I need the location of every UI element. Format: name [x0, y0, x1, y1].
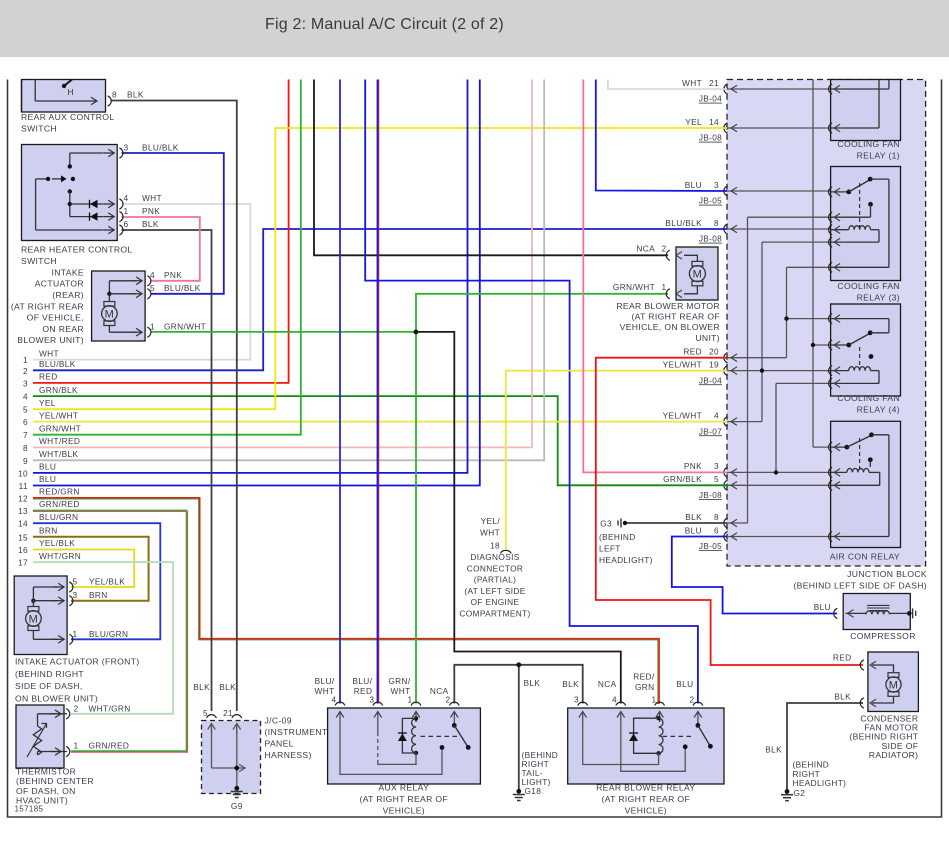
svg-text:GRN/RED: GRN/RED — [89, 741, 130, 751]
svg-text:REAR AUX CONTROL: REAR AUX CONTROL — [21, 112, 114, 122]
svg-text:157185: 157185 — [15, 805, 44, 814]
svg-text:YEL/BLK: YEL/BLK — [89, 577, 125, 587]
svg-text:M: M — [889, 680, 899, 692]
actuator M-intake-front intake actuator (front) — [14, 576, 67, 655]
svg-text:17: 17 — [18, 558, 28, 568]
svg-text:18: 18 — [490, 541, 500, 551]
svg-text:RELAY (1): RELAY (1) — [857, 151, 900, 161]
svg-text:INTAKE: INTAKE — [51, 267, 84, 277]
svg-text:1: 1 — [662, 282, 667, 292]
svg-text:YEL/: YEL/ — [481, 516, 501, 526]
svg-text:RED: RED — [39, 372, 58, 382]
svg-text:BLU: BLU — [39, 462, 56, 472]
svg-text:RED: RED — [833, 653, 852, 663]
svg-text:RELAY (4): RELAY (4) — [857, 405, 900, 415]
svg-text:HEADLIGHT): HEADLIGHT) — [599, 555, 653, 565]
svg-text:THERMISTOR: THERMISTOR — [16, 767, 76, 777]
wire YEL/WHT diagnosis connector drop — [506, 371, 727, 549]
wire 17 WHT/GRN row — [33, 562, 173, 714]
svg-text:HEADLIGHT): HEADLIGHT) — [793, 778, 847, 788]
motor M-rear-blower rear blower motor — [676, 247, 718, 300]
svg-text:15: 15 — [18, 532, 28, 542]
svg-text:BLU/GRN: BLU/GRN — [89, 629, 128, 639]
svg-text:BLK: BLK — [685, 512, 702, 522]
svg-text:JB-08: JB-08 — [699, 134, 722, 143]
svg-text:AUX RELAY: AUX RELAY — [378, 783, 429, 793]
svg-text:GRN: GRN — [635, 682, 655, 692]
wire 3 RED row — [33, 80, 289, 383]
svg-text:(AT RIGHT REAR OF: (AT RIGHT REAR OF — [631, 312, 720, 322]
wire 12 RED/GRN row — [33, 498, 659, 704]
svg-text:PANEL: PANEL — [265, 739, 294, 749]
svg-text:OF ENGINE: OF ENGINE — [471, 597, 520, 607]
svg-text:8: 8 — [714, 218, 719, 228]
svg-text:BLK: BLK — [562, 679, 579, 689]
svg-text:RED/: RED/ — [633, 672, 655, 682]
svg-text:JB-05: JB-05 — [699, 197, 722, 206]
svg-text:BLOWER UNIT): BLOWER UNIT) — [17, 335, 84, 345]
svg-text:1: 1 — [408, 695, 413, 705]
svg-text:PNK: PNK — [164, 270, 182, 280]
svg-text:1: 1 — [23, 355, 28, 365]
svg-text:GRN/RED: GRN/RED — [39, 499, 80, 509]
wire PNK heater pin1 to intake rear pin4 — [122, 217, 200, 281]
svg-text:NCA: NCA — [636, 244, 655, 254]
jb pin 21 WHT — [724, 84, 728, 94]
svg-text:SWITCH: SWITCH — [21, 124, 57, 134]
svg-text:3: 3 — [574, 695, 579, 705]
wire GRN/WHT intake rear pin1 to junction — [151, 331, 417, 333]
svg-text:5: 5 — [73, 577, 78, 587]
svg-text:GRN/WHT: GRN/WHT — [613, 282, 655, 292]
actuator M-intake-rear intake actuator (rear) — [92, 271, 146, 341]
svg-text:14: 14 — [709, 117, 719, 127]
svg-text:WHT: WHT — [480, 528, 500, 538]
svg-text:WHT: WHT — [682, 78, 702, 88]
wire WHT from top to JB pin 21 — [608, 80, 727, 90]
wire 4 GRN/BLK row — [33, 396, 727, 485]
svg-text:YEL/WHT: YEL/WHT — [663, 410, 702, 420]
svg-text:REAR BLOWER RELAY: REAR BLOWER RELAY — [596, 783, 695, 793]
svg-text:BLK: BLK — [765, 744, 782, 754]
svg-text:M: M — [29, 614, 39, 626]
svg-text:BLK: BLK — [219, 682, 236, 692]
svg-text:(REAR): (REAR) — [52, 290, 84, 300]
svg-text:SIDE OF DASH,: SIDE OF DASH, — [15, 681, 83, 691]
relay: cooling fan relay (1) — [831, 80, 901, 141]
svg-text:GRN/BLK: GRN/BLK — [39, 385, 78, 395]
svg-text:BLU: BLU — [685, 180, 702, 190]
wire 7 GRN/WHT row — [33, 80, 301, 435]
svg-text:1: 1 — [74, 741, 79, 751]
svg-text:(PARTIAL): (PARTIAL) — [474, 575, 517, 585]
svg-text:BLK: BLK — [524, 678, 541, 688]
svg-text:BLU: BLU — [685, 525, 702, 535]
svg-text:3: 3 — [714, 180, 719, 190]
svg-text:2: 2 — [23, 366, 28, 376]
svg-text:BLK: BLK — [193, 682, 210, 692]
svg-text:NCA: NCA — [598, 679, 617, 689]
svg-text:5: 5 — [203, 708, 208, 718]
wire BLU/RED from top to aux relay pin 3 — [377, 80, 379, 704]
svg-text:4: 4 — [612, 695, 617, 705]
svg-text:BLU/BLK: BLU/BLK — [142, 143, 179, 153]
svg-text:BLU: BLU — [814, 602, 831, 612]
svg-text:BLK: BLK — [127, 90, 144, 100]
thermistor RT1 — [16, 705, 64, 768]
relay: air con relay U-aircon — [831, 421, 901, 547]
svg-text:(INSTRUMENT: (INSTRUMENT — [265, 727, 328, 737]
svg-text:RADIATOR): RADIATOR) — [869, 750, 919, 760]
svg-text:WHT: WHT — [39, 348, 59, 358]
jb pin 6 BLU — [724, 531, 728, 541]
svg-text:RED: RED — [683, 347, 702, 357]
svg-text:YEL: YEL — [39, 398, 56, 408]
wire 6 YEL/WHT row — [33, 421, 727, 423]
jb pin 8 BLK — [724, 518, 728, 528]
svg-text:BRN: BRN — [39, 526, 58, 536]
svg-text:M: M — [693, 269, 703, 281]
svg-text:4: 4 — [23, 392, 28, 402]
svg-text:DIAGNOSIS: DIAGNOSIS — [470, 552, 519, 562]
svg-text:10: 10 — [18, 468, 28, 478]
wire BLK rear blower relay net with G18 ground — [454, 665, 582, 704]
svg-text:7: 7 — [23, 430, 28, 440]
svg-text:Fig 2: Manual A/C Circuit (2 o: Fig 2: Manual A/C Circuit (2 of 2) — [265, 16, 504, 33]
svg-text:3: 3 — [73, 590, 78, 600]
svg-text:5: 5 — [150, 283, 155, 293]
svg-text:VEHICLE): VEHICLE) — [383, 806, 425, 816]
svg-text:JUNCTION BLOCK: JUNCTION BLOCK — [847, 569, 927, 579]
svg-text:G18: G18 — [525, 786, 542, 796]
svg-text:WHT/GRN: WHT/GRN — [89, 704, 131, 714]
motor M-condenser condenser fan motor — [868, 652, 919, 712]
svg-text:(AT RIGHT REAR: (AT RIGHT REAR — [11, 301, 84, 311]
svg-text:J/C-09: J/C-09 — [265, 716, 292, 726]
svg-text:UNIT): UNIT) — [695, 333, 720, 343]
svg-text:11: 11 — [19, 481, 28, 491]
svg-text:COMPARTMENT): COMPARTMENT) — [459, 609, 530, 619]
connector diagnosis (partial) — [501, 550, 512, 553]
svg-text:REAR BLOWER MOTOR: REAR BLOWER MOTOR — [616, 301, 720, 311]
svg-text:JB-07: JB-07 — [699, 427, 722, 436]
wire GRN/WHT junction down to aux relay pin1 and motor branch — [416, 294, 668, 704]
svg-text:G9: G9 — [231, 801, 243, 811]
svg-text:4: 4 — [124, 193, 129, 203]
svg-text:LIGHT): LIGHT) — [522, 777, 551, 787]
svg-text:ON BLOWER UNIT): ON BLOWER UNIT) — [15, 693, 98, 703]
svg-text:RELAY (3): RELAY (3) — [857, 293, 900, 303]
svg-text:YEL: YEL — [685, 117, 702, 127]
svg-text:BLK: BLK — [142, 219, 159, 229]
svg-text:1: 1 — [150, 322, 155, 332]
svg-text:3: 3 — [124, 143, 129, 153]
relay: cooling fan relay (4) — [831, 304, 901, 396]
svg-text:GRN/BLK: GRN/BLK — [663, 474, 702, 484]
wire BLK from rear heater switch pin 6 to J/C-09 pin 5 — [122, 230, 212, 711]
wire 9 WHT/BLK row — [33, 80, 544, 461]
jb pin 3 BLU — [724, 186, 728, 196]
relay K-rear-blower rear blower relay — [568, 708, 724, 784]
svg-text:12: 12 — [18, 493, 28, 503]
svg-text:INTAKE ACTUATOR (FRONT): INTAKE ACTUATOR (FRONT) — [15, 657, 140, 667]
junction block (behind left side of dash) — [727, 80, 926, 567]
wire BLU JB pin6 to compressor — [672, 537, 837, 614]
svg-text:2: 2 — [662, 244, 667, 254]
svg-text:OF VEHICLE,: OF VEHICLE, — [27, 313, 84, 323]
jb pin 20 RED — [724, 353, 728, 363]
connector J/C-09 instrument panel harness — [202, 721, 261, 794]
wire BLK from rear aux switch pin 8 to J/C-09 pin 21 — [111, 101, 237, 712]
svg-text:(BEHIND CENTER: (BEHIND CENTER — [16, 776, 94, 786]
switch SW-heater rear heater control switch — [22, 145, 118, 241]
svg-text:YEL/WHT: YEL/WHT — [663, 359, 702, 369]
svg-text:H: H — [68, 87, 74, 97]
svg-text:BRN: BRN — [89, 590, 108, 600]
wire 15 BRN row — [33, 537, 149, 601]
svg-text:(AT RIGHT REAR OF: (AT RIGHT REAR OF — [360, 794, 449, 804]
switch SW-aux rear aux control switch — [22, 80, 106, 113]
wire NCA black junction to rear blower relay pin 4 — [416, 332, 621, 704]
jb pin 8 BLU/BLK — [724, 224, 728, 234]
jb pin 5 GRN/BLK — [724, 480, 728, 490]
svg-text:3: 3 — [369, 695, 374, 705]
svg-text:SWITCH: SWITCH — [21, 256, 57, 266]
wire 10 BLU row — [33, 80, 468, 473]
wire 8 WHT/RED row — [33, 80, 532, 448]
svg-text:YEL/BLK: YEL/BLK — [39, 538, 75, 548]
svg-text:BLK: BLK — [834, 692, 851, 702]
svg-text:(BEHIND RIGHT: (BEHIND RIGHT — [15, 669, 84, 679]
relay K-aux aux relay — [328, 708, 481, 784]
wire BLU/BLK heater pin3 to intake rear pin5 — [122, 153, 224, 294]
svg-text:5: 5 — [714, 474, 719, 484]
jb junction dots — [760, 368, 764, 372]
wire 11 BLU row — [33, 80, 480, 486]
svg-text:AIR CON RELAY: AIR CON RELAY — [830, 552, 900, 562]
svg-text:2: 2 — [690, 695, 695, 705]
svg-text:JB-08: JB-08 — [699, 491, 722, 500]
wire BLK drop to G18 — [518, 665, 520, 789]
svg-text:6: 6 — [124, 219, 129, 229]
wire BLU/WHT from top to aux relay pin 4 — [339, 80, 341, 704]
svg-text:VEHICLE, ON BLOWER: VEHICLE, ON BLOWER — [620, 322, 720, 332]
svg-text:RED/GRN: RED/GRN — [39, 487, 80, 497]
wire 1 WHT row — [33, 204, 250, 360]
jb pin 19 YEL/WHT — [724, 365, 728, 375]
svg-text:JB-05: JB-05 — [699, 542, 722, 551]
svg-text:M: M — [105, 309, 115, 321]
svg-text:8: 8 — [112, 90, 117, 100]
svg-text:JB-08: JB-08 — [699, 235, 722, 244]
svg-text:(AT RIGHT REAR OF: (AT RIGHT REAR OF — [602, 794, 691, 804]
title bar — [0, 0, 949, 57]
svg-text:16: 16 — [18, 545, 28, 555]
svg-text:6: 6 — [23, 417, 28, 427]
jb pin 14 YEL — [724, 123, 728, 133]
wire BLK condenser fan to G2 — [787, 703, 863, 790]
svg-text:3: 3 — [714, 461, 719, 471]
svg-text:G3: G3 — [600, 519, 612, 529]
svg-text:3: 3 — [23, 378, 28, 388]
svg-text:1: 1 — [124, 206, 129, 216]
svg-text:BLU/BLK: BLU/BLK — [665, 218, 702, 228]
svg-text:CONNECTOR: CONNECTOR — [467, 563, 523, 573]
svg-text:21: 21 — [709, 78, 719, 88]
svg-text:LEFT: LEFT — [599, 544, 621, 554]
relay: cooling fan relay (3) — [831, 167, 901, 281]
svg-text:REAR HEATER CONTROL: REAR HEATER CONTROL — [21, 245, 133, 255]
svg-text:PNK: PNK — [142, 206, 160, 216]
svg-text:(BEHIND LEFT SIDE OF DASH): (BEHIND LEFT SIDE OF DASH) — [793, 581, 927, 591]
ground G9 — [234, 786, 239, 791]
jb pin 3 PNK — [724, 467, 728, 477]
svg-text:4: 4 — [150, 270, 155, 280]
svg-text:BLU: BLU — [676, 679, 693, 689]
wire RED JB pin20 to condenser fan motor — [596, 358, 863, 665]
svg-text:(AT LEFT SIDE: (AT LEFT SIDE — [464, 586, 525, 596]
svg-text:COOLING FAN: COOLING FAN — [837, 139, 900, 149]
svg-text:2: 2 — [446, 695, 451, 705]
svg-text:1: 1 — [73, 629, 78, 639]
wire PNK from top to JB pin 3 — [583, 80, 727, 473]
jb pin 4 YEL/WHT — [724, 416, 728, 426]
svg-text:13: 13 — [18, 506, 28, 516]
svg-text:GRN/: GRN/ — [388, 676, 410, 686]
svg-text:JB-04: JB-04 — [699, 376, 722, 385]
svg-text:ON REAR: ON REAR — [42, 324, 84, 334]
wire 13 GRN/RED row — [33, 511, 187, 752]
G3 case ground symbol — [617, 521, 619, 526]
svg-text:4: 4 — [714, 410, 719, 420]
svg-text:G2: G2 — [794, 788, 806, 798]
svg-text:PNK: PNK — [684, 461, 702, 471]
svg-text:WHT/RED: WHT/RED — [39, 436, 80, 446]
wire 14 BLU/GRN row — [33, 523, 160, 639]
wire 5 YEL row — [33, 128, 727, 409]
wire jb internal — [727, 88, 831, 90]
svg-text:YEL/WHT: YEL/WHT — [39, 410, 78, 420]
svg-text:1: 1 — [652, 695, 657, 705]
svg-text:COMPRESSOR: COMPRESSOR — [850, 631, 916, 641]
svg-text:HARNESS): HARNESS) — [265, 750, 312, 760]
compressor clutch coil — [843, 594, 910, 630]
svg-text:GRN/WHT: GRN/WHT — [39, 423, 81, 433]
svg-text:5: 5 — [23, 405, 28, 415]
wire BLU top to rear blower relay pin 2 — [365, 80, 698, 704]
svg-text:20: 20 — [709, 347, 719, 357]
svg-text:19: 19 — [709, 359, 719, 369]
svg-text:8: 8 — [714, 512, 719, 522]
svg-text:JB-04: JB-04 — [699, 95, 722, 104]
ground G18 — [516, 789, 521, 794]
svg-text:9: 9 — [23, 456, 28, 466]
svg-text:4: 4 — [332, 695, 337, 705]
svg-text:COOLING FAN: COOLING FAN — [837, 393, 900, 403]
wire 2 BLU/BLK row — [33, 229, 727, 370]
wire 16 YEL/BLK row — [33, 550, 134, 588]
wire NCA to rear blower motor pin 2 — [314, 80, 668, 256]
svg-text:VEHICLE): VEHICLE) — [625, 806, 667, 816]
svg-text:8: 8 — [23, 443, 28, 453]
svg-text:BLU/GRN: BLU/GRN — [39, 512, 78, 522]
svg-text:ACTUATOR: ACTUATOR — [35, 279, 84, 289]
svg-text:BLU/BLK: BLU/BLK — [164, 283, 201, 293]
svg-text:GRN/WHT: GRN/WHT — [164, 322, 206, 332]
wire BLU from top to JB pin 3 (BLU) — [596, 80, 727, 192]
svg-text:BLU/: BLU/ — [352, 676, 372, 686]
svg-text:2: 2 — [74, 704, 79, 714]
svg-text:BLU: BLU — [39, 474, 56, 484]
svg-text:WHT/GRN: WHT/GRN — [39, 551, 81, 561]
svg-text:COOLING FAN: COOLING FAN — [837, 281, 900, 291]
svg-text:BLU/: BLU/ — [315, 676, 335, 686]
svg-text:14: 14 — [18, 519, 28, 529]
ground G2 — [785, 789, 790, 794]
svg-text:(BEHIND: (BEHIND — [599, 532, 636, 542]
svg-text:WHT/BLK: WHT/BLK — [39, 449, 78, 459]
svg-text:WHT: WHT — [142, 193, 162, 203]
svg-text:OF DASH, ON: OF DASH, ON — [16, 786, 76, 796]
wire BLK G3 to JB pin 8 — [627, 522, 727, 524]
node junction GRN/WHT — [414, 330, 419, 335]
svg-text:21: 21 — [223, 708, 233, 718]
svg-text:6: 6 — [714, 525, 719, 535]
